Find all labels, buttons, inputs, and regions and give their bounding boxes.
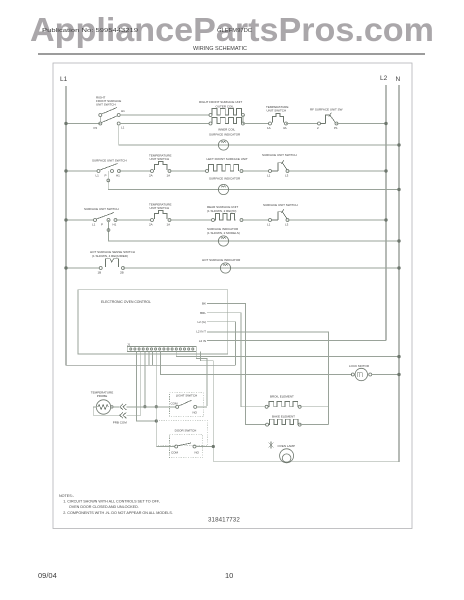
junction N row4 (398, 267, 401, 270)
wire row2 to L2 (288, 170, 387, 172)
wire pin drop to L1 line b (152, 352, 154, 366)
svg-text:L2 IN T: L2 IN T (196, 330, 206, 334)
wire light no to riser (197, 406, 207, 408)
junction L1 row2 (65, 170, 68, 173)
svg-text:L1: L1 (92, 223, 96, 227)
wire row1 to L2 (337, 123, 387, 125)
terminal on row2 drop (107, 179, 110, 182)
svg-text:OUTER COIL: OUTER COIL (216, 104, 235, 108)
switch hot surface sense switch (90, 250, 135, 275)
wire pin drop to probe lead1 (144, 352, 146, 407)
svg-text:SURFACE UNIT SWITCH: SURFACE UNIT SWITCH (92, 159, 127, 163)
svg-text:(1 SHOWN, 2 MODELS): (1 SHOWN, 2 MODELS) (207, 231, 240, 235)
wire probe line1 to light com (126, 406, 175, 408)
light switch S1 box (170, 393, 204, 417)
resistor broil element (265, 395, 301, 409)
svg-text:HOT SURFACE INDICATOR: HOT SURFACE INDICATOR (202, 258, 241, 262)
svg-text:L1: L1 (267, 174, 271, 178)
lamp hot surface indicator (202, 258, 241, 273)
wire row4 to indicator (123, 267, 399, 269)
L2 bus wire (385, 85, 387, 341)
svg-text:L3: L3 (285, 223, 289, 227)
svg-text:OVEN DOOR CLOSED AND UNLOCKED.: OVEN DOOR CLOSED AND UNLOCKED. (69, 505, 139, 509)
svg-text:SURFACE INDICATOR: SURFACE INDICATOR (209, 133, 241, 137)
junction prb com (155, 420, 157, 422)
svg-text:1A: 1A (167, 174, 171, 178)
switch RIGHT FRONT SURFACE UNIT SWITCH (94, 96, 126, 131)
switch surface unit switch row2 right (262, 153, 297, 178)
wire pin drop to door com (155, 352, 157, 447)
wire door no to lamp feed (196, 446, 213, 448)
lamp surface indicator row1 (209, 133, 241, 151)
wire row3 to L2 (288, 219, 387, 221)
wire pin drop to probe com line (137, 352, 157, 421)
svg-text:N: N (396, 76, 401, 83)
temperature unit switch row1 (266, 105, 288, 130)
connector J1 strip (127, 343, 196, 352)
wire BK from box (207, 304, 266, 425)
wire row2 to coil (170, 170, 206, 172)
wire row1 bottom branch (120, 123, 209, 125)
motor lock motor M1 (349, 364, 372, 381)
door switch S2 outer box (156, 421, 207, 458)
svg-text:1B: 1B (98, 271, 102, 275)
notes block (59, 494, 173, 515)
junction L2 row3 (385, 219, 388, 222)
wire pin drop to lock motor (160, 352, 352, 375)
svg-text:2. COMPONENTS WITH -N- DO NOT: 2. COMPONENTS WITH -N- DO NOT APPEAR ON … (63, 511, 173, 515)
svg-text:GLEFM97DC: GLEFM97DC (217, 28, 252, 34)
wire row4 main (66, 267, 99, 269)
svg-text:L2 IN: L2 IN (199, 339, 206, 343)
svg-text:J1: J1 (127, 343, 131, 347)
svg-text:2A: 2A (149, 174, 153, 178)
wire row1 top branch (120, 114, 209, 116)
wire bake right (300, 424, 329, 426)
svg-text:L3: L3 (285, 174, 289, 178)
wire pin drop to probe lead2 (140, 352, 142, 416)
svg-text:(1 SHOWN, 2 REQ'D): (1 SHOWN, 2 REQ'D) (207, 209, 236, 213)
wire BRL from box (207, 313, 265, 407)
svg-text:L1: L1 (121, 126, 125, 130)
svg-text:P: P (101, 223, 103, 227)
svg-text:OVEN LAMP: OVEN LAMP (278, 444, 296, 448)
wire row3 indicator drop (109, 220, 400, 241)
junction probe lead1 (144, 406, 146, 408)
wire L2 G from box (207, 322, 236, 366)
junction light com (155, 406, 157, 408)
resistor bake element (266, 415, 302, 427)
svg-text:H1: H1 (116, 174, 120, 178)
svg-text:2A: 2A (149, 223, 153, 227)
junction L1 row3 (65, 219, 68, 222)
svg-text:NO: NO (195, 451, 200, 455)
svg-text:SURFACE UNIT SWITCH: SURFACE UNIT SWITCH (262, 153, 297, 157)
svg-text:L2: L2 (380, 75, 388, 82)
svg-text:P1: P1 (334, 126, 338, 130)
temperature unit switch row2 (149, 154, 171, 178)
box electronic oven control U1 (78, 290, 228, 354)
svg-text:INNER COIL: INNER COIL (218, 128, 236, 132)
svg-text:L1: L1 (267, 223, 271, 227)
resistor left front surface unit (206, 157, 248, 173)
svg-text:P: P (105, 174, 107, 178)
junction L1 row4 (65, 267, 68, 270)
svg-text:H1: H1 (121, 109, 125, 113)
junction N row3 (398, 240, 401, 243)
wire row1 main (66, 123, 100, 125)
svg-text:NO: NO (193, 411, 198, 415)
wire probe lead2 (93, 407, 119, 415)
svg-text:2B: 2B (120, 271, 124, 275)
switch surface unit switch row2 left (92, 159, 127, 178)
svg-text:PRB COM: PRB COM (113, 421, 128, 425)
svg-text:3A: 3A (283, 126, 287, 130)
schematic frame (53, 63, 412, 529)
temperature probe RT1 (91, 391, 127, 425)
wire row1 indicator drop (119, 125, 399, 145)
wire row2 to right switch (242, 170, 269, 172)
svg-text:318417732: 318417732 (208, 516, 240, 523)
svg-text:L2 (G): L2 (G) (197, 320, 206, 324)
svg-text:Publication No: 5995443219: Publication No: 5995443219 (42, 28, 138, 34)
resistor inner coil (209, 118, 244, 132)
wire lock motor to N (372, 374, 399, 376)
wire row3 to right switch (242, 219, 269, 221)
svg-text:LOCK MOTOR: LOCK MOTOR (349, 364, 370, 368)
wire pin drop to lamp feed (201, 352, 214, 462)
svg-text:P2: P2 (94, 126, 98, 130)
junction L2 row2 (385, 170, 388, 173)
svg-text:COM: COM (171, 451, 179, 455)
junction door no (212, 445, 214, 447)
svg-text:UNIT SWITCH: UNIT SWITCH (150, 157, 170, 161)
svg-text:DOOR SWITCH: DOOR SWITCH (175, 429, 197, 433)
svg-text:UNIT SWITCH: UNIT SWITCH (150, 206, 170, 210)
lamp oven lamp DS1 (269, 442, 296, 463)
lamp surface indicator row2 (209, 177, 241, 195)
svg-text:NOTES:-: NOTES:- (59, 494, 75, 498)
svg-text:H1: H1 (113, 223, 117, 227)
wire pin drop to N (176, 352, 399, 357)
svg-text:LEFT FRONT SURFACE UNIT: LEFT FRONT SURFACE UNIT (207, 157, 248, 161)
wire pin drop to L1 line (148, 352, 150, 366)
N bus wire (398, 85, 400, 462)
wire lamp bottom line (213, 460, 399, 462)
svg-text:(1 SHOWN, 4 REQUIRED): (1 SHOWN, 4 REQUIRED) (92, 254, 128, 258)
wire L2 IN from box (207, 340, 386, 342)
svg-text:ELECTRONIC OVEN CONTROL: ELECTRONIC OVEN CONTROL (101, 300, 151, 304)
wire L2 IN T from box (207, 332, 328, 425)
wire probe line2 to pin (126, 414, 141, 416)
svg-text:RF SURFACE UNIT SW: RF SURFACE UNIT SW (310, 108, 343, 112)
temperature unit switch row3 (149, 203, 171, 227)
svg-text:SURFACE UNIT SWITCH: SURFACE UNIT SWITCH (84, 207, 119, 211)
wire broil right (300, 406, 329, 408)
svg-text:SURFACE INDICATOR: SURFACE INDICATOR (209, 177, 241, 181)
svg-text:BK: BK (202, 302, 206, 306)
wire coil merge (242, 115, 244, 124)
svg-text:BROIL ELEMENT: BROIL ELEMENT (270, 395, 294, 399)
svg-text:BAKE ELEMENT: BAKE ELEMENT (272, 415, 295, 419)
resistor outer coil (199, 100, 244, 117)
connector chevrons lead1 (120, 404, 123, 410)
junction N row2 (398, 188, 401, 191)
wire row3 main (66, 219, 94, 221)
svg-text:UNIT SWITCH: UNIT SWITCH (267, 109, 287, 113)
switch RF SURFACE UNIT SW (310, 108, 343, 131)
svg-text:LIGHT SWITCH: LIGHT SWITCH (176, 394, 197, 398)
wire row1 to temp switch (243, 123, 269, 125)
terminal on row3 drop (107, 229, 110, 232)
junction N mid (398, 355, 401, 358)
wire row2 to temp switch (119, 170, 151, 172)
junction L1 row1 (65, 122, 68, 125)
svg-text:10: 10 (225, 571, 233, 580)
switch surface unit switch row3 right (263, 203, 298, 227)
junction L2 row1 (385, 122, 388, 125)
svg-text:UNIT SWITCH: UNIT SWITCH (96, 103, 116, 107)
svg-text:1A: 1A (167, 223, 171, 227)
svg-text:1A: 1A (267, 126, 271, 130)
lamp surface indicator row3 (207, 227, 240, 246)
wire row2 indicator drop (108, 171, 399, 190)
svg-text:L1: L1 (60, 76, 68, 83)
wire row3 to temp switch (116, 219, 151, 221)
connector chevrons lead2 (120, 412, 123, 418)
wire row1 to rf switch (286, 123, 318, 125)
svg-text:09/04: 09/04 (38, 571, 57, 580)
wire probe lead1 (111, 406, 113, 408)
wire door com (156, 446, 174, 448)
resistor rear surface unit (207, 205, 243, 222)
switch surface unit switch row3 left (84, 207, 119, 227)
svg-text:L1: L1 (96, 174, 100, 178)
wire pin drop to light NO (196, 352, 207, 406)
svg-text:PROBE: PROBE (97, 394, 108, 398)
L1 bus wire (66, 86, 236, 365)
junction N motor (398, 373, 401, 376)
wire row2 main (66, 170, 97, 172)
svg-text:1. CIRCUIT SHOWN WITH ALL CON: 1. CIRCUIT SHOWN WITH ALL CONTROLS SET T… (63, 500, 160, 504)
svg-text:BRL: BRL (200, 311, 206, 315)
svg-text:COM: COM (171, 402, 179, 406)
wire row3 to coil (170, 219, 212, 221)
header rule (38, 53, 425, 55)
svg-text:WIRING SCHEMATIC: WIRING SCHEMATIC (193, 46, 247, 52)
svg-text:SURFACE UNIT SWITCH: SURFACE UNIT SWITCH (263, 203, 298, 207)
junction N row1 (398, 144, 401, 147)
